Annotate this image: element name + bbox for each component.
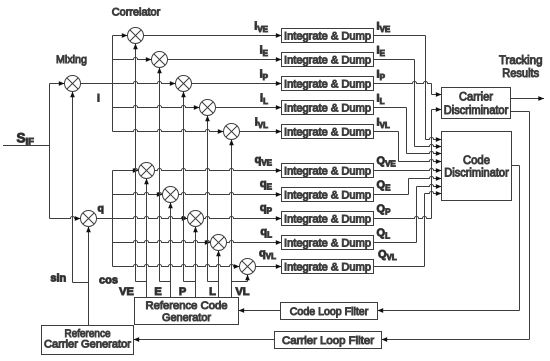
integrate and dump I-VE: [282, 29, 374, 43]
svg-text:cos: cos: [99, 275, 118, 287]
wire qVL to integrate & dump: [256, 264, 282, 269]
correlator mixer i-L: [200, 100, 216, 116]
label q_E: [260, 178, 273, 192]
wire L code to q correlator: [216, 251, 221, 298]
wire L code pair junction: [208, 281, 219, 283]
wire VE code to i correlator: [133, 44, 138, 282]
wire sin carrier to i mixer: [70, 92, 75, 283]
svg-text:Results: Results: [502, 68, 539, 80]
wire cos carrier to q mixer + sin/cos junction: [73, 227, 91, 326]
label I_VL: [377, 117, 390, 131]
svg-text:Integrate & Dump: Integrate & Dump: [284, 213, 371, 225]
svg-text:Carrier Generator: Carrier Generator: [44, 338, 131, 350]
wire q to E correlator: [113, 192, 163, 197]
svg-text:Code: Code: [463, 155, 490, 167]
wire VE code pair junction: [136, 281, 147, 283]
wire S_IF branch vertical: [49, 84, 51, 219]
wire into mixing mixer (i): [50, 81, 65, 86]
wire P code to q correlator: [193, 227, 198, 298]
correlator mixer q-VL: [240, 259, 256, 275]
wire I_P to carrier discriminator: [374, 81, 442, 96]
wire Q_P to carrier discriminator: [374, 107, 442, 218]
mixer i (carrier wipe-off): [65, 76, 81, 92]
svg-text:Integrate & Dump: Integrate & Dump: [284, 165, 371, 177]
svg-text:Integrate & Dump: Integrate & Dump: [284, 126, 371, 138]
wire E code pair junction: [160, 281, 171, 283]
svg-text:Reference Code: Reference Code: [146, 300, 228, 312]
wire Q_VL to code discriminator: [374, 191, 442, 266]
svg-text:Integrate & Dump: Integrate & Dump: [284, 189, 371, 201]
svg-text:L: L: [209, 286, 216, 298]
wire I_VL to code discriminator: [374, 132, 442, 164]
wire qVE to integrate & dump: [155, 168, 282, 173]
wire i to VE correlator: [113, 33, 128, 38]
integrate and dump Q-E: [282, 188, 374, 202]
wire I_VE to code discriminator: [374, 36, 442, 142]
svg-text:i: i: [97, 92, 100, 104]
wire I_E to code discriminator: [374, 60, 442, 149]
svg-text:Generator: Generator: [162, 312, 211, 324]
svg-text:Integrate & Dump: Integrate & Dump: [284, 237, 371, 249]
correlator mixer i-P: [176, 76, 192, 92]
correlator mixer i-E: [152, 52, 168, 68]
label Q_P: [377, 203, 392, 217]
wire iE to integrate & dump: [168, 57, 282, 62]
wire S_IF input from left edge: [3, 145, 50, 147]
wire q branch vertical: [112, 171, 114, 267]
label Q_E: [377, 179, 392, 193]
integrate and dump Q-VL: [282, 260, 374, 274]
wire Q_E to code discriminator: [374, 176, 442, 194]
correlator mixer i-VL: [224, 124, 240, 140]
wire q to VE correlator: [113, 168, 139, 173]
wire VL code to i correlator: [229, 140, 234, 298]
label Q_VE: [377, 155, 397, 169]
integrate and dump I-L: [282, 101, 374, 115]
label q_P: [260, 202, 273, 216]
label i_E: [260, 45, 269, 59]
correlator mixer q-E: [163, 187, 179, 203]
wire code discriminator to code loop filter: [378, 166, 520, 313]
label Q_L: [377, 227, 391, 241]
svg-text:q: q: [98, 202, 104, 214]
label i_VL: [255, 117, 268, 131]
wire q signal to prompt correlator: [97, 216, 188, 221]
svg-text:P: P: [179, 286, 186, 298]
label I_E: [377, 45, 386, 59]
wire tracking results output: [511, 96, 545, 101]
label i_P: [260, 69, 269, 83]
integrate and dump I-P: [282, 77, 374, 91]
svg-text:VE: VE: [119, 286, 134, 298]
wire P code to i correlator: [181, 92, 186, 282]
label S_IF input signal: [17, 131, 35, 148]
svg-text:Discriminator: Discriminator: [444, 167, 509, 179]
mixer q (carrier wipe-off): [81, 211, 97, 227]
wire iVL to integrate & dump: [240, 129, 282, 134]
svg-text:sin: sin: [50, 273, 66, 285]
wire E code to q correlator: [168, 203, 173, 298]
svg-text:Correlator: Correlator: [112, 6, 161, 18]
reference carrier generator: [42, 326, 134, 355]
wire into mixing mixer (q), hop over sin line: [50, 216, 81, 221]
integrate and dump Q-P: [282, 212, 374, 226]
label i in-phase: [97, 92, 100, 104]
wire L code to i correlator: [205, 116, 210, 282]
svg-text:Integrate & Dump: Integrate & Dump: [284, 30, 371, 42]
svg-text:VL: VL: [235, 286, 249, 298]
svg-text:Carrier Loop Filter: Carrier Loop Filter: [282, 335, 374, 347]
svg-text:Integrate & Dump: Integrate & Dump: [284, 261, 371, 273]
wire iP to integrate & dump: [192, 81, 282, 86]
wire i to L correlator: [113, 105, 200, 110]
svg-text:Discriminator: Discriminator: [444, 105, 509, 117]
correlator mixer q-VE: [139, 163, 155, 179]
wire i signal to prompt correlator: [81, 81, 176, 86]
wire E code to i correlator: [157, 68, 162, 282]
label I_L: [377, 93, 385, 107]
label I_VE: [377, 21, 391, 35]
correlator mixer q-L: [211, 235, 227, 251]
wire qL to integrate & dump: [227, 240, 282, 245]
wire qE to integrate & dump: [179, 192, 282, 197]
wire VE code to q correlator: [144, 179, 149, 298]
svg-text:Carrier: Carrier: [459, 91, 493, 103]
integrate and dump Q-L: [282, 236, 374, 250]
wire qP to integrate & dump: [204, 216, 282, 221]
correlator mixer i-VE: [128, 28, 144, 44]
svg-text:Tracking: Tracking: [499, 55, 543, 67]
svg-text:Integrate & Dump: Integrate & Dump: [284, 102, 371, 114]
carrier loop filter: [275, 332, 382, 349]
label q_VE: [255, 154, 273, 168]
wire I_L to code discriminator: [374, 108, 442, 156]
integrate and dump I-E: [282, 53, 374, 67]
svg-text:Code Loop Filter: Code Loop Filter: [290, 306, 369, 318]
wire VL code to q correlator: [232, 275, 250, 282]
correlator mixer q-P: [188, 211, 204, 227]
code loop filter: [281, 303, 378, 320]
wire q to VL correlator: [113, 264, 240, 269]
label I_P: [377, 69, 386, 83]
svg-text:E: E: [154, 286, 161, 298]
wire iL to integrate & dump: [216, 105, 282, 110]
wire Q_VE to code discriminator: [374, 168, 442, 173]
wire q to L correlator: [113, 240, 211, 245]
label i_VE: [254, 21, 268, 35]
svg-text:Integrate & Dump: Integrate & Dump: [284, 78, 371, 90]
reference code generator: [135, 298, 239, 325]
code discriminator: [442, 132, 512, 201]
label Q_VL: [378, 249, 397, 263]
wire iVE to integrate & dump: [144, 33, 282, 38]
integrate and dump Q-VE: [282, 164, 374, 178]
wire i branch vertical: [112, 36, 114, 132]
wire code loop filter to reference code generator: [239, 308, 281, 313]
integrate and dump I-VL: [282, 125, 374, 139]
wire P code pair junction: [184, 281, 196, 283]
label q quadrature: [98, 202, 104, 214]
svg-text:Mixing: Mixing: [56, 54, 87, 66]
wire i to E correlator: [113, 57, 152, 62]
wire Q_L to code discriminator: [374, 184, 442, 242]
wire carrier loop filter to reference carrier generator: [134, 337, 275, 342]
label i_L: [260, 93, 268, 107]
label q_L: [260, 226, 272, 240]
wire carrier discriminator to carrier loop filter: [382, 112, 530, 342]
svg-text:Integrate & Dump: Integrate & Dump: [284, 54, 371, 66]
label q_VL: [259, 248, 276, 262]
wire i to VL correlator: [113, 129, 224, 134]
carrier discriminator: [442, 88, 511, 119]
